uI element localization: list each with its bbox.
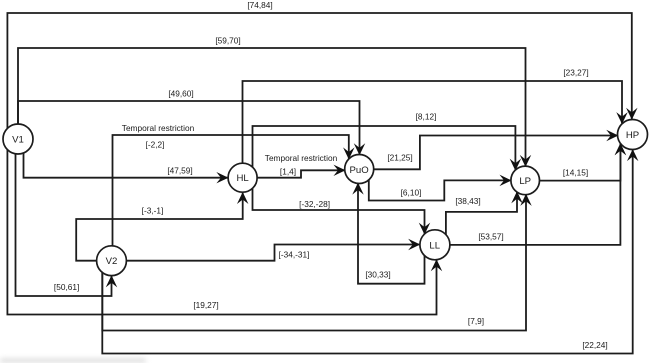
svg-text:[19,27]: [19,27] [193,300,218,310]
svg-text:[74,84]: [74,84] [247,0,272,10]
svg-text:[-34,-31]: [-34,-31] [279,250,310,260]
svg-text:[49,60]: [49,60] [168,89,193,99]
svg-text:LL: LL [429,240,440,251]
svg-text:V1: V1 [12,135,24,146]
svg-text:[6,10]: [6,10] [401,188,422,198]
svg-text:[-32,-28]: [-32,-28] [299,199,330,209]
svg-text:HL: HL [236,173,249,184]
svg-text:[38,43]: [38,43] [455,196,480,206]
svg-text:[53,57]: [53,57] [478,232,503,242]
svg-text:[30,33]: [30,33] [365,270,390,280]
svg-text:[1,4]: [1,4] [280,166,296,176]
svg-text:[7,9]: [7,9] [468,316,484,326]
svg-text:[47,59]: [47,59] [167,166,192,176]
svg-text:Temporal restriction: Temporal restriction [265,153,338,163]
svg-text:PuO: PuO [349,165,368,176]
svg-text:[21,25]: [21,25] [387,153,412,163]
svg-text:[50,61]: [50,61] [54,282,79,292]
svg-text:[-3,-1]: [-3,-1] [142,206,164,216]
svg-text:[22,24]: [22,24] [582,340,607,350]
svg-text:[8,12]: [8,12] [416,112,437,122]
svg-text:LP: LP [519,176,531,187]
svg-text:[-2,2]: [-2,2] [146,140,165,150]
svg-text:[59,70]: [59,70] [215,36,240,46]
svg-text:[23,27]: [23,27] [563,68,588,78]
svg-text:Temporal restriction: Temporal restriction [122,123,195,133]
svg-text:V2: V2 [106,256,118,267]
svg-text:HP: HP [626,130,639,141]
svg-text:[14,15]: [14,15] [563,168,588,178]
